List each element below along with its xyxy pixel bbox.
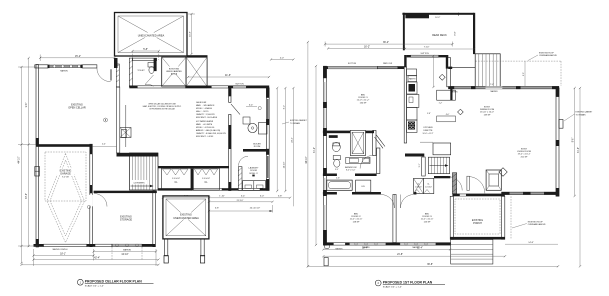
svg-text:AMBLER # : GAS (40 GALLON): AMBLER # : GAS (40 GALLON) bbox=[196, 129, 221, 132]
svg-text:LAUNDRY: LAUNDRY bbox=[249, 166, 260, 169]
top right wall y87 bbox=[448, 86, 559, 93]
bathroom bbox=[329, 130, 370, 171]
svg-text:3'-1": 3'-1" bbox=[419, 163, 421, 167]
svg-text:CAPACITY : 40 GALLONS, 40,000: CAPACITY : 40 GALLONS, 40,000 BTU bbox=[196, 132, 227, 135]
svg-text:21'-10": 21'-10" bbox=[237, 200, 244, 202]
svg-text:123 SF: 123 SF bbox=[424, 221, 431, 223]
svg-text:MARVIN CUW164: MARVIN CUW164 bbox=[53, 248, 68, 251]
svg-text:MARVIN: MARVIN bbox=[123, 248, 131, 251]
svg-text:OVERHANG ABOVE: OVERHANG ABOVE bbox=[528, 223, 546, 226]
svg-text:44'-10": 44'-10" bbox=[306, 156, 308, 163]
svg-text:4'-0": 4'-0" bbox=[280, 58, 284, 60]
svg-text:5'-0"x6'-8": 5'-0"x6'-8" bbox=[202, 178, 210, 180]
legs below bottom box bbox=[164, 239, 205, 263]
svg-text:TOILET: TOILET bbox=[137, 70, 145, 72]
long mid wall y86 bbox=[129, 84, 269, 89]
titles bbox=[77, 279, 445, 288]
bed2/3 divider bbox=[393, 195, 396, 243]
svg-text:8'-0" x 5'-0": 8'-0" x 5'-0" bbox=[346, 170, 355, 172]
laundry room bbox=[238, 156, 265, 190]
title 2: 1st floor plan bbox=[375, 280, 445, 288]
svg-text:3'-0": 3'-0" bbox=[335, 169, 339, 171]
svg-text:9'-4": 9'-4" bbox=[26, 103, 28, 108]
wall stub right of box bbox=[187, 55, 208, 57]
svg-text:11'-4": 11'-4" bbox=[362, 247, 368, 249]
svg-text:24'-10 1/2": 24'-10 1/2" bbox=[250, 208, 261, 210]
RIGHT PLAN bbox=[306, 13, 593, 267]
small circle markers bbox=[87, 205, 90, 208]
svg-text:SCALE: 1/4" = 1'-0": SCALE: 1/4" = 1'-0" bbox=[85, 285, 104, 288]
svg-text:BATHROOM: BATHROOM bbox=[345, 166, 357, 169]
mid dims above wall y86 bbox=[188, 74, 269, 77]
garage/cellar bottom wall bbox=[34, 244, 156, 251]
svg-text:SUTTON: SUTTON bbox=[235, 84, 244, 86]
svg-text:LIN: LIN bbox=[361, 186, 365, 188]
note paragraph bbox=[143, 103, 182, 111]
svg-text:EFFICIENCY : 84.0% AFUE: EFFICIENCY : 84.0% AFUE bbox=[196, 116, 218, 119]
misc symbols right plan bbox=[336, 109, 464, 250]
garage door arc into storage bbox=[94, 194, 107, 207]
svg-text:UNEXCAVATED: UNEXCAVATED bbox=[166, 70, 182, 73]
svg-text:139 SF: 139 SF bbox=[484, 114, 491, 116]
svg-text:3'-4": 3'-4" bbox=[249, 105, 254, 107]
cabinet note right plan bbox=[564, 111, 593, 122]
wall between open cellar and stair hall bbox=[92, 87, 131, 153]
svg-text:4TH SUNROOM, TR: 4TH SUNROOM, TR bbox=[408, 17, 427, 19]
svg-text:7'-0": 7'-0" bbox=[490, 84, 494, 86]
svg-text:251 SF: 251 SF bbox=[521, 156, 528, 158]
dashed overhang bbox=[475, 53, 561, 87]
svg-text:16'-8": 16'-8" bbox=[190, 31, 192, 37]
svg-text:128 SF: 128 SF bbox=[353, 221, 360, 223]
svg-text:CL: CL bbox=[427, 184, 429, 186]
svg-text:5'-0"x6'-8": 5'-0"x6'-8" bbox=[172, 178, 180, 180]
svg-text:MARVIN: MARVIN bbox=[491, 90, 499, 93]
svg-text:31'-2": 31'-2" bbox=[314, 147, 316, 153]
svg-text:EXISTING CABINET: EXISTING CABINET bbox=[290, 119, 308, 122]
deck stairs bbox=[475, 54, 500, 87]
svg-text:15'-2": 15'-2" bbox=[75, 55, 81, 58]
svg-text:14 RISERS: 14 RISERS bbox=[133, 183, 145, 185]
svg-text:PANTRY: PANTRY bbox=[409, 78, 417, 81]
wall under closets bbox=[158, 188, 269, 190]
svg-text:36'-2": 36'-2" bbox=[383, 41, 389, 44]
right plan dims bbox=[306, 41, 580, 266]
foyer closets bbox=[414, 173, 485, 194]
svg-text:16'-2": 16'-2" bbox=[364, 45, 370, 48]
svg-text:44'-10": 44'-10" bbox=[19, 156, 21, 163]
unexcavated area box (top) bbox=[115, 13, 188, 57]
toilet room below top box bbox=[116, 58, 156, 87]
fireplace bbox=[486, 168, 507, 191]
svg-text:EFFICIENCY : 0.62 EF: EFFICIENCY : 0.62 EF bbox=[196, 136, 213, 138]
svg-text:MARVIN: MARVIN bbox=[336, 248, 344, 251]
svg-text:6'-8": 6'-8" bbox=[215, 208, 219, 210]
svg-text:5'-8": 5'-8" bbox=[427, 113, 431, 115]
svg-text:MODEL # : GWA-140: MODEL # : GWA-140 bbox=[196, 107, 212, 110]
dimension tick marks bbox=[20, 13, 581, 268]
svg-text:14'-8": 14'-8" bbox=[528, 242, 534, 244]
svg-text:5'-8": 5'-8" bbox=[278, 196, 283, 198]
svg-text:7'-10": 7'-10" bbox=[424, 46, 430, 48]
cellar top wall bbox=[35, 65, 97, 73]
left dim column bbox=[18, 58, 38, 263]
title 1: cellar plan bbox=[77, 279, 153, 287]
right dim col bbox=[271, 58, 293, 207]
svg-text:5'-8": 5'-8" bbox=[143, 48, 148, 51]
rear deck bbox=[402, 13, 475, 55]
bottom dims bbox=[22, 196, 291, 266]
svg-text:14'-10": 14'-10" bbox=[283, 161, 285, 168]
svg-text:HEA. # : 201/15: HEA. # : 201/15 bbox=[196, 110, 208, 113]
svg-text:OVERHANG ABOVE: OVERHANG ABOVE bbox=[539, 54, 557, 57]
kitchen nook top wall bbox=[404, 53, 525, 86]
svg-text:18'-1": 18'-1" bbox=[60, 253, 66, 255]
door arc top right of open cellar bbox=[97, 68, 111, 82]
svg-text:AREA: AREA bbox=[171, 73, 177, 76]
svg-text:36'-8": 36'-8" bbox=[427, 264, 433, 266]
porch bbox=[450, 194, 505, 240]
svg-text:5'-4": 5'-4" bbox=[241, 196, 246, 198]
svg-text:MODEL # : GCR-40 400: MODEL # : GCR-40 400 bbox=[196, 127, 214, 129]
svg-text:DINETTE: DINETTE bbox=[424, 130, 434, 132]
svg-text:UNEXCAVATED AREA: UNEXCAVATED AREA bbox=[173, 217, 199, 220]
svg-text:PATIO DR: PATIO DR bbox=[383, 62, 393, 65]
svg-text:3'-0": 3'-0" bbox=[260, 196, 265, 198]
corridor walls bbox=[323, 130, 385, 176]
right wall of cellar bbox=[266, 88, 269, 191]
LEFT PLAN bbox=[18, 13, 308, 267]
svg-text:1'-10": 1'-10" bbox=[219, 196, 225, 198]
bottom wall right plan bbox=[323, 242, 450, 248]
right wall bbox=[556, 88, 563, 196]
svg-text:4'-4": 4'-4" bbox=[102, 144, 106, 146]
svg-text:STORAGE: STORAGE bbox=[120, 219, 133, 222]
kitchen wall + counters bbox=[404, 67, 455, 143]
svg-text:MARVIN: MARVIN bbox=[60, 69, 68, 72]
svg-text:CL: CL bbox=[417, 184, 419, 186]
svg-text:PORCH: PORCH bbox=[473, 222, 482, 225]
svg-text:9'-2": 9'-2" bbox=[283, 105, 285, 110]
garage right wall bbox=[90, 144, 93, 247]
main top wall left part bbox=[323, 62, 404, 69]
svg-text:21'-8": 21'-8" bbox=[397, 254, 403, 256]
boiler room divider wall bbox=[243, 149, 269, 152]
svg-text:31'-6": 31'-6" bbox=[578, 147, 580, 153]
boiler fixtures bbox=[243, 117, 267, 148]
svg-text:9'-0" DR: 9'-0" DR bbox=[62, 177, 69, 179]
svg-text:MAKE : WILLIAMSON: MAKE : WILLIAMSON bbox=[196, 104, 215, 107]
garage dashed layout bbox=[45, 152, 86, 243]
svg-text:PROPOSED CELLAR FLOOR PLAN: PROPOSED CELLAR FLOOR PLAN bbox=[85, 280, 142, 284]
toilet door diagonal bbox=[231, 104, 240, 115]
svg-text:PROPOSED 1ST FLOOR PLAN: PROPOSED 1ST FLOOR PLAN bbox=[383, 280, 433, 284]
svg-text:MAKE : A.O.SMITH: MAKE : A.O.SMITH bbox=[196, 123, 213, 126]
svg-text:TO REMAIN: TO REMAIN bbox=[576, 113, 587, 116]
garage top wall bbox=[36, 144, 92, 147]
svg-text:CAPACITY : 97,000 BTU: CAPACITY : 97,000 BTU bbox=[196, 113, 215, 116]
svg-text:OPEN CELLAR: OPEN CELLAR bbox=[68, 107, 86, 110]
hall wall with bedroom doors bbox=[323, 192, 417, 208]
svg-text:REAR DECK: REAR DECK bbox=[432, 34, 447, 37]
svg-text:2'-0"x6'-8": 2'-0"x6'-8" bbox=[425, 186, 432, 188]
svg-text:4'-0": 4'-0" bbox=[446, 114, 450, 116]
svg-text:9'-8": 9'-8" bbox=[455, 31, 457, 36]
room labels right plan bbox=[350, 95, 531, 224]
svg-text:ROOM: ROOM bbox=[250, 170, 257, 172]
svg-text:10'-0" x 11'-2": 10'-0" x 11'-2" bbox=[423, 133, 434, 135]
unexcavated area box (bottom) bbox=[163, 196, 209, 239]
svg-text:24'-2": 24'-2" bbox=[291, 137, 293, 143]
storage room bbox=[94, 191, 157, 247]
tub + linen bbox=[327, 178, 371, 193]
left wall bbox=[323, 66, 327, 245]
svg-text:11'-4": 11'-4" bbox=[417, 247, 423, 249]
svg-text:8'-6": 8'-6" bbox=[573, 138, 575, 143]
roof overhang note (bottom) + dashed line bbox=[511, 196, 546, 239]
interior stairs bbox=[405, 143, 451, 176]
dim 5'-8" under box bbox=[133, 14, 196, 60]
svg-text:TO REMAIN: TO REMAIN bbox=[290, 122, 301, 125]
svg-text:1'-2": 1'-2" bbox=[439, 103, 443, 105]
stairs (cellar) bbox=[117, 153, 159, 190]
closet row bbox=[158, 166, 229, 190]
living room bottom wall bbox=[501, 192, 559, 195]
svg-text:2'-0"x6'-8": 2'-0"x6'-8" bbox=[415, 186, 422, 188]
svg-text:42'-4": 42'-4" bbox=[94, 258, 100, 260]
svg-text:GARAGE: GARAGE bbox=[60, 173, 71, 176]
svg-text:UNEXCAVATED AREA: UNEXCAVATED AREA bbox=[138, 33, 165, 37]
svg-text:33'-6": 33'-6" bbox=[26, 193, 28, 199]
svg-text:41'-6": 41'-6" bbox=[225, 74, 231, 77]
svg-text:2'-0": 2'-0" bbox=[523, 72, 525, 76]
hatch boxes below top box bbox=[162, 57, 186, 86]
svg-text:14'-2": 14'-2" bbox=[435, 17, 440, 19]
svg-text:EXISTING CABINET: EXISTING CABINET bbox=[576, 111, 594, 114]
boiler room left wall bbox=[228, 88, 231, 190]
svg-text:6'-0": 6'-0" bbox=[184, 196, 189, 198]
spec text block bbox=[196, 101, 227, 138]
svg-text:10'-10": 10'-10" bbox=[121, 254, 128, 256]
svg-text:ROOM: ROOM bbox=[254, 146, 261, 148]
left wall bbox=[35, 65, 40, 248]
cabinet note right bbox=[282, 119, 308, 125]
top dim bbox=[40, 55, 114, 62]
svg-text:SUTTON: SUTTON bbox=[348, 63, 357, 65]
svg-text:134 SF: 134 SF bbox=[360, 102, 367, 104]
svg-text:HOT WATER HEATER: HOT WATER HEATER bbox=[196, 120, 214, 123]
porch steps bbox=[451, 240, 493, 265]
svg-text:IS PROHIBITED IN THE CELLAR: IS PROHIBITED IN THE CELLAR bbox=[149, 108, 175, 111]
svg-text:SUTTON: SUTTON bbox=[421, 53, 430, 55]
svg-text:SCALE: 1/4" = 1'-0": SCALE: 1/4" = 1'-0" bbox=[383, 285, 402, 288]
svg-text:2'-6": 2'-6" bbox=[336, 178, 340, 180]
deck rail left bbox=[434, 56, 451, 87]
svg-text:GAS BOILER: GAS BOILER bbox=[196, 101, 207, 104]
svg-text:KITCHEN: KITCHEN bbox=[423, 127, 433, 129]
